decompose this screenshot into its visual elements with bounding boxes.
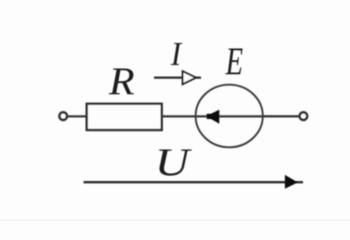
svg-text:U: U [155, 141, 192, 184]
voltage arrow U: shaft [84, 181, 304, 183]
left terminal [59, 112, 67, 120]
current arrow I: shaft [154, 76, 201, 78]
faint divider line near bottom [0, 220, 350, 221]
EMF source E circle [196, 85, 263, 148]
wire: left terminal to resistor [68, 115, 87, 117]
voltage arrow U: filled head [285, 175, 298, 189]
right terminal [300, 112, 308, 120]
wire: source to right terminal [263, 115, 299, 117]
svg-text:R: R [108, 59, 135, 102]
EMF arrow E (points left) [207, 110, 220, 124]
svg-text:E: E [225, 40, 243, 83]
current arrow I: open head [183, 71, 196, 84]
wire: resistor to source circle [162, 115, 196, 117]
wire: through source [196, 115, 263, 117]
resistor R [87, 104, 162, 130]
